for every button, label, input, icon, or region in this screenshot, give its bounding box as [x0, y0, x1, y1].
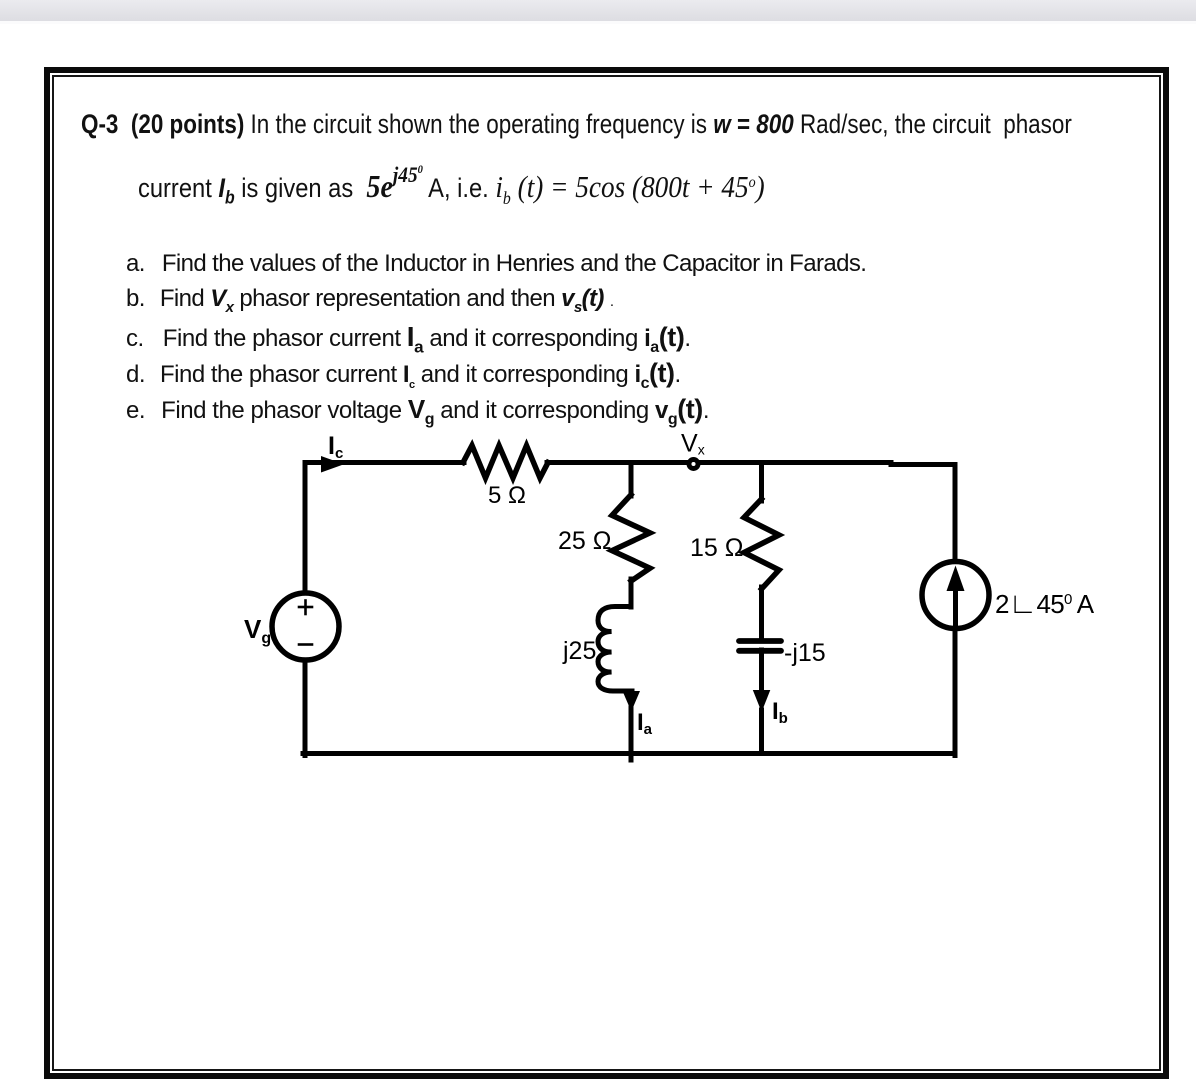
svg-text:-j15: -j15 — [784, 639, 826, 667]
heading line 2 — [138, 162, 765, 209]
wire: right vertical lower — [953, 628, 958, 756]
wire: branch1 bottom lead — [629, 708, 634, 760]
svg-text:25 Ω: 25 Ω — [558, 527, 611, 555]
wire: left vertical lower — [303, 659, 308, 756]
wire: branch1 middle lead — [629, 579, 634, 607]
resistor R3 15ohm — [744, 499, 779, 589]
arrow Ib — [753, 690, 771, 712]
top gray banner — [0, 0, 1196, 21]
heading line 1 — [81, 109, 1072, 140]
svg-text:j25: j25 — [562, 637, 596, 665]
svg-text:Vx: Vx — [681, 430, 705, 458]
wire: right vertical upper — [953, 465, 958, 562]
inductor j25 — [598, 607, 632, 692]
svg-text:Ia: Ia — [637, 709, 653, 738]
wire: branch2 lower lead — [759, 650, 764, 692]
arrow Ic on top wire — [321, 456, 344, 473]
wire: branch2 bottom lead — [759, 710, 764, 754]
svg-text:Vg: Vg — [244, 614, 271, 647]
wire: top left horizontal — [305, 460, 464, 465]
wire: bottom horizontal — [303, 751, 955, 756]
capacitor C1 -j15 — [739, 641, 781, 651]
wire: branch2 top lead — [759, 463, 764, 502]
current source I1 — [922, 562, 989, 629]
svg-text:2∟450 A: 2∟450 A — [995, 588, 1095, 620]
wire: top middle horizontal — [547, 460, 891, 465]
resistor R2 25ohm — [612, 495, 650, 581]
resistor R1 5ohm — [463, 446, 548, 479]
svg-text:5 Ω: 5 Ω — [488, 482, 526, 509]
svg-text:Ic: Ic — [328, 432, 343, 462]
node Vx — [689, 460, 698, 469]
wire: top right horizontal — [891, 462, 955, 467]
wire: branch2 middle lead — [759, 587, 764, 640]
svg-text:15 Ω: 15 Ω — [690, 534, 743, 562]
wire: left vertical upper — [303, 463, 308, 595]
svg-text:Ib: Ib — [772, 698, 788, 727]
list items — [126, 250, 866, 278]
wire: branch1 top lead — [629, 463, 634, 497]
arrow Ia — [623, 691, 641, 712]
voltage source Vg — [272, 593, 339, 660]
